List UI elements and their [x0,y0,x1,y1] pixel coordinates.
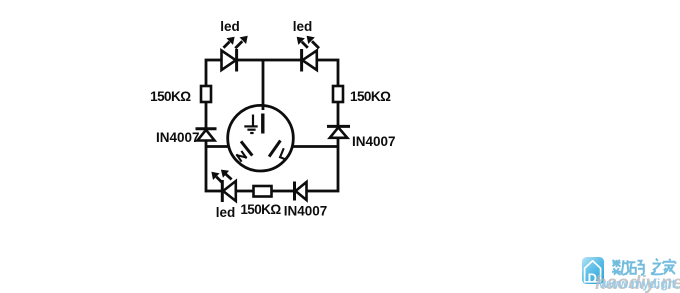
svg-text:led: led [220,19,240,34]
char shu [612,260,629,275]
char zhi [651,259,663,275]
plug earth pin [261,114,264,134]
svg-text:IN4007: IN4007 [284,204,328,219]
resistor R3 bottom 150K [254,186,272,197]
plug live prong [269,141,280,157]
resistor R1 left 150K [201,86,211,102]
diode D4 IN4007 left [196,129,217,141]
char jia [663,259,675,274]
wire top rail feed into plug [262,60,265,110]
svg-text:150KΩ: 150KΩ [150,89,191,104]
char ma [629,261,644,275]
LED D3 bottom [211,170,235,202]
plug socket body (circle) [228,105,294,171]
LED D2 top-right [297,36,319,72]
svg-text:IN4007: IN4007 [156,130,200,145]
node L label [280,149,288,159]
wire plug to right rail [285,145,338,148]
plug neutral prong [241,141,252,155]
node N label [237,152,246,161]
svg-text:IN4007: IN4007 [352,134,396,149]
wire left rail to plug [206,145,240,148]
diode D6 IN4007 bottom [295,182,307,201]
ground (earth symbol inside plug) [244,115,257,134]
wire outer loop (top/left/right/bottom rails) [206,60,338,191]
svg-text:led: led [293,19,313,34]
diode D5 IN4007 right [327,126,350,137]
LED D1 top-left [222,36,248,72]
resistor R2 right 150K [333,86,343,102]
svg-text:150KΩ: 150KΩ [240,202,281,217]
watermark logo (house with D) [582,257,604,286]
svg-text:150KΩ: 150KΩ [350,89,391,104]
svg-text:led: led [216,205,236,220]
watermark text 'shu ma zhi jia' drawn strokes [612,259,675,275]
svg-text:www.mydigit.net: www.mydigit.net [598,277,680,291]
